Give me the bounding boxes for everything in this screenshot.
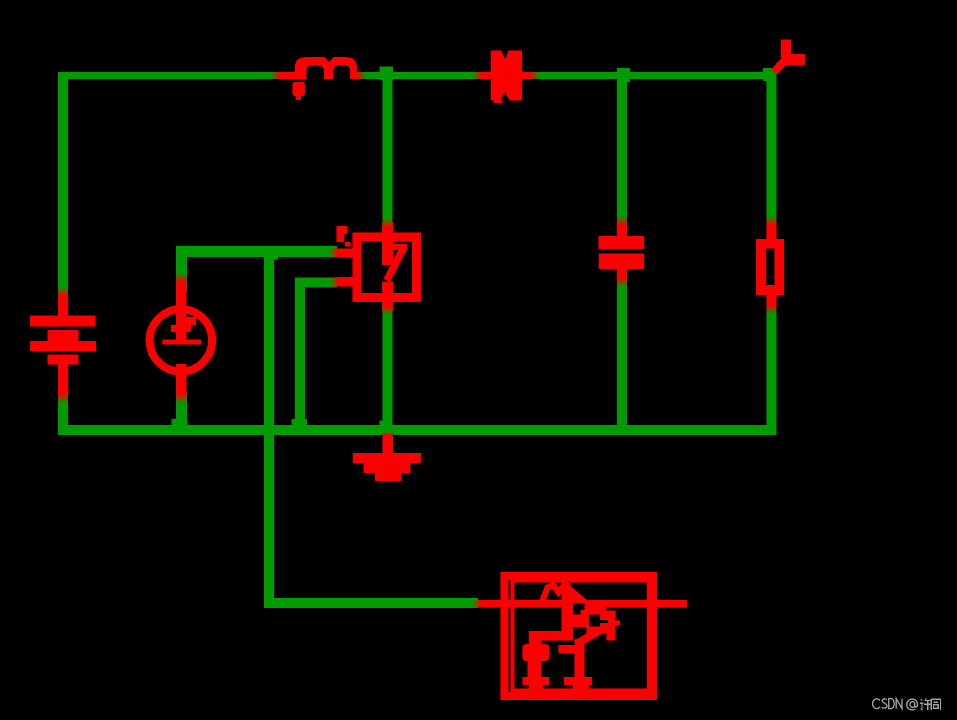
switch Q1 bottom lead — [382, 297, 394, 311]
wire top rail segment 1 (battery corner to inductor) — [58, 72, 281, 79]
subcircuit U1 wedge B — [589, 615, 608, 627]
subcircuit U1 inner box — [513, 580, 650, 691]
switch Q1 glyph diagonal — [387, 248, 404, 281]
wire capacitor branch upper — [617, 80, 627, 230]
subcircuit U1 wire W1 — [529, 631, 573, 641]
wire source top stem — [176, 252, 187, 292]
wire top rail segment 2 (inductor to diode) — [360, 72, 480, 79]
wire blend source bottom — [176, 394, 187, 403]
wire blend inductor right — [357, 72, 366, 79]
wire blend capacitor bottom — [617, 278, 627, 287]
wire top rail segment 3 (diode to right corner) — [532, 72, 767, 79]
probe switch horizontal bar — [786, 54, 805, 65]
diode D1 bottom notch — [501, 92, 510, 100]
source V2 lower stem — [176, 364, 187, 377]
node nub source-rail joint — [172, 419, 188, 426]
wire blend resistor bottom — [767, 305, 777, 314]
probe switch vertical bar — [781, 40, 791, 59]
wire control 2 horizontal (to switch lower terminal) — [295, 278, 337, 288]
diode D1 bottom bump — [494, 100, 503, 103]
subcircuit U1 through lead — [476, 600, 687, 607]
subcircuit U1 resistor zigzag — [543, 585, 571, 602]
probe switch arm — [774, 57, 788, 72]
inductor L1 polarity dot — [293, 82, 306, 96]
switch Q1 glyph bar — [393, 244, 407, 250]
wire source bottom stem — [176, 393, 187, 427]
watermark glyph xu — [920, 698, 932, 710]
wire bottom rail — [58, 425, 777, 435]
wire blend box lead — [472, 600, 481, 607]
switch Q1 inner stem upper — [382, 240, 394, 265]
wire blend switch stub upper — [329, 249, 338, 258]
subcircuit U1 apex column — [606, 611, 615, 641]
wire blend battery top — [58, 287, 68, 296]
wire long drop vertical (to feedback box) — [264, 246, 274, 603]
inductor L1 hole 2 — [334, 65, 351, 79]
subcircuit U1 op-amp body fill — [572, 607, 607, 633]
battery V1 plate 3 long — [30, 341, 96, 351]
wire right branch lower (resistor to bottom rail) — [767, 300, 777, 427]
capacitor C1 top plate — [599, 236, 644, 249]
inductor L1 body — [295, 57, 357, 79]
wire blend capacitor top — [617, 216, 627, 225]
inductor L1 valley notch — [325, 57, 334, 62]
ground bar 1 — [353, 453, 421, 463]
subcircuit U1 source bar — [522, 677, 548, 685]
inductor L1 lead left — [275, 72, 302, 79]
switch Q1 plus mark a — [337, 226, 348, 234]
watermark text CSDN — [873, 699, 918, 710]
wire blend battery bottom — [58, 394, 68, 403]
source V2 right wing — [187, 317, 196, 326]
resistor R1 top lead — [767, 221, 777, 240]
diode D1 lead right — [521, 72, 536, 79]
node junction nub at switch drain column — [380, 67, 394, 81]
node nub control2-rail joint — [292, 419, 308, 426]
subcircuit U1 wire W1 corner — [529, 636, 542, 648]
inductor L1 polarity dot tail — [296, 96, 302, 101]
capacitor C1 bottom lead — [617, 269, 627, 283]
switch Q1 plus mark b — [337, 234, 345, 242]
wire blend source top — [176, 273, 187, 282]
diode D1 top notch — [501, 51, 509, 60]
watermark glyph tong — [931, 699, 940, 710]
wire control 1 horizontal (source to switch upper terminal) — [176, 246, 337, 257]
subcircuit U1 nub — [558, 645, 574, 654]
inductor L1 hole 1 — [307, 65, 325, 79]
wire control 2 vertical — [295, 278, 305, 428]
resistor R1 bottom lead — [767, 294, 777, 310]
resistor R1 body — [761, 244, 779, 290]
capacitor C1 bottom plate — [599, 253, 644, 269]
subcircuit U1 bottom slant — [580, 628, 605, 642]
subcircuit U1 outer box — [505, 576, 653, 696]
subcircuit U1 source blob — [522, 644, 549, 661]
battery V1 plate 1 long — [30, 316, 96, 327]
wire blend resistor top — [767, 216, 777, 225]
ground bar 3 — [375, 473, 402, 481]
wire blend switch bottom — [383, 306, 393, 315]
subcircuit U1 wedge C — [573, 628, 587, 638]
battery V1 bottom lead — [58, 364, 68, 398]
capacitor C1 top lead — [617, 221, 627, 237]
subcircuit U1 source neck — [528, 661, 542, 677]
switch Q1 upper control stub — [334, 249, 353, 258]
source V2 ring — [150, 309, 212, 371]
wire right branch upper (to load resistor) — [767, 78, 777, 225]
diode D1 body — [491, 51, 522, 101]
switch Q1 box — [357, 237, 417, 297]
ground bar 2 — [364, 463, 411, 473]
wire long drop horizontal (to feedback box) — [264, 598, 478, 608]
source V2 plus bar — [171, 325, 191, 332]
node corner nub top-right — [763, 68, 777, 81]
node junction nub at capacitor column — [617, 68, 630, 82]
node nub switch-rail joint — [380, 421, 393, 426]
battery V1 plate 4 short — [47, 355, 78, 365]
inductor L1 lead right — [351, 72, 363, 79]
subcircuit U1 mid vertical — [574, 639, 584, 677]
wire left rail upper (to battery) — [58, 72, 68, 295]
switch Q1 top lead — [382, 222, 394, 238]
battery V1 plate 2 short — [47, 330, 78, 341]
wire blend inductor left — [271, 72, 280, 79]
wire blend diode right — [530, 72, 539, 79]
switch Q1 plus mark c — [345, 242, 351, 247]
wire switch branch upper — [383, 79, 393, 225]
battery V1 top lead — [58, 291, 68, 317]
subcircuit U1 input bar — [562, 586, 572, 640]
subcircuit U1 mid bar — [564, 677, 592, 685]
node nub drop-ctrl1 joint — [264, 246, 278, 260]
wire left rail lower (battery to bottom rail) — [58, 395, 68, 430]
source V2 inner stem — [176, 306, 187, 344]
wire capacitor branch lower — [617, 275, 627, 427]
subcircuit U1 resistor tail — [565, 584, 589, 607]
wire blend diode left — [473, 72, 482, 79]
wire blend switch top — [383, 218, 393, 227]
switch Q1 inner stem lower — [382, 281, 394, 297]
subcircuit U1 wedge A — [573, 604, 585, 615]
switch Q1 lower control stub — [335, 277, 353, 287]
subcircuit U1 mid tail — [573, 685, 590, 692]
diode D1 lead left — [478, 72, 492, 79]
source V2 top lead — [176, 277, 187, 309]
subcircuit U1 apex nub — [616, 620, 621, 625]
wire blend switch stub lower — [330, 278, 339, 287]
source V2 wide bar — [163, 340, 202, 345]
subcircuit U1 source tail — [529, 685, 543, 692]
ground stub — [382, 433, 392, 454]
wire switch branch lower — [383, 307, 393, 427]
source V2 bottom lead — [176, 371, 187, 399]
